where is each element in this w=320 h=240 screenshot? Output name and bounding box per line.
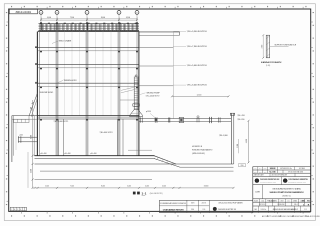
svg-text:SEKKEI: SEKKEI: [270, 168, 276, 170]
svg-text:4,900: 4,900: [246, 139, 248, 143]
svg-text:HOSUIRO PLAN SANSYO: HOSUIRO PLAN SANSYO: [192, 149, 213, 152]
svg-text:TENKEN HORO: TENKEN HORO: [64, 80, 78, 82]
svg-text:B5-1: B5-1: [294, 204, 297, 206]
svg-text:UNIT: UNIT: [280, 201, 283, 203]
svg-text:2017.8.10 SYONINZUMI: 2017.8.10 SYONINZUMI: [272, 175, 288, 177]
svg-text:1,500: 1,500: [31, 107, 33, 111]
svg-text:▽EL+700: ▽EL+700: [237, 114, 244, 117]
svg-text:E: E: [136, 12, 137, 14]
svg-text:▽EL+5,000 SOUTOU: ▽EL+5,000 SOUTOU: [187, 64, 207, 67]
svg-text:B: B: [20, 209, 21, 211]
svg-text:12.8: 12.8: [259, 171, 262, 173]
svg-text:1:100: 1:100: [261, 201, 265, 203]
svg-text:HOSUIRO E: HOSUIRO E: [192, 146, 203, 148]
svg-text:(S=1:100 SOTO): (S=1:100 SOTO): [150, 193, 163, 195]
svg-text:CHUGOKU ELECTRIC KK: CHUGOKU ELECTRIC KK: [218, 209, 236, 211]
svg-text:φ600: φ600: [20, 134, 24, 136]
svg-text:JWN-41-W-001: JWN-41-W-001: [15, 12, 32, 14]
svg-text:DSG: DSG: [191, 209, 194, 211]
svg-text:12.8: 12.8: [254, 171, 257, 173]
svg-text:SHUSUI PUMP ROOM DANMENZU: SHUSUI PUMP ROOM DANMENZU: [270, 191, 304, 194]
svg-text:CHK: CHK: [259, 168, 262, 170]
svg-text:3RD: 3RD: [274, 201, 277, 203]
svg-text:SETSUBI DWG No.: SETSUBI DWG No.: [280, 168, 292, 170]
svg-text:4,500: 4,500: [126, 17, 130, 19]
svg-text:DWG: DWG: [191, 203, 194, 205]
svg-text:7,500: 7,500: [70, 17, 74, 19]
svg-text:(1:10): (1:10): [266, 65, 271, 67]
svg-text:SUPPORT TORITSUKE ICH: SUPPORT TORITSUKE ICH: [275, 45, 297, 47]
svg-text:12.8: 12.8: [264, 171, 267, 173]
svg-text:DSGN CHK: DSGN CHK: [277, 204, 284, 206]
svg-text:DSG: DSG: [264, 168, 267, 170]
svg-text:DWG No.: DWG No.: [261, 209, 267, 211]
svg-text:KANDAI SYOSAIZU: KANDAI SYOSAIZU: [261, 61, 282, 64]
svg-text:▽EL+2,600 SOTO: ▽EL+2,600 SOTO: [54, 120, 69, 123]
svg-text:13,600: 13,600: [204, 186, 209, 188]
svg-text:2,500: 2,500: [45, 186, 49, 188]
svg-text:(JWN-41-W-002): (JWN-41-W-002): [192, 153, 205, 155]
svg-text:A17000779 HONZUMEN NO CHOSAKUK: A17000779 HONZUMEN NO CHOSAKUKEN WA TOSH…: [262, 215, 320, 218]
svg-text:8,000: 8,000: [101, 186, 105, 188]
svg-text:8,000: 8,000: [31, 135, 33, 139]
svg-text:ONODA HATSUDENSYO (KARI): ONODA HATSUDENSYO (KARI): [272, 187, 301, 190]
svg-text:SHUSUI PUMP: SHUSUI PUMP: [147, 93, 161, 95]
svg-text:OSAKAWAN IRIHORI: OSAKAWAN IRIHORI: [163, 208, 184, 211]
svg-text:12,000: 12,000: [197, 94, 202, 96]
svg-text:SNS: SNS: [240, 165, 243, 167]
svg-text:SUIKOMI SUISO: SUIKOMI SUISO: [40, 92, 54, 94]
svg-text:B: B: [56, 12, 57, 14]
svg-text:CHUGOKU ELECTRIC CORP: CHUGOKU ELECTRIC CORP: [260, 182, 276, 184]
svg-text:P: P: [297, 209, 298, 211]
svg-text:8,000: 8,000: [101, 17, 105, 19]
svg-text:TENJO CRANE: TENJO CRANE: [59, 40, 72, 43]
svg-text:ZUMEI: ZUMEI: [255, 192, 260, 194]
svg-text:4,000: 4,000: [145, 186, 149, 188]
svg-text:2017.8.10: 2017.8.10: [259, 204, 265, 206]
svg-text:1:100: 1:100: [269, 201, 275, 203]
svg-text:▽EL+2,600 SOTO: ▽EL+2,600 SOTO: [146, 95, 160, 98]
svg-text:4,500: 4,500: [162, 186, 166, 188]
svg-text:2,000: 2,000: [261, 44, 263, 48]
svg-text:2,300: 2,300: [237, 144, 239, 148]
svg-text:φ1350: φ1350: [146, 111, 151, 113]
svg-text:(SONO 1): (SONO 1): [283, 196, 291, 198]
svg-text:7,500: 7,500: [70, 186, 74, 188]
svg-text:▽EL+3,000 SOUTOU: ▽EL+3,000 SOUTOU: [187, 84, 207, 87]
svg-text:mm: mm: [287, 201, 289, 203]
svg-text:CHUGOKU DENRYOKU KK: CHUGOKU DENRYOKU KK: [260, 179, 280, 181]
svg-text:2017.8: 2017.8: [202, 203, 206, 205]
svg-text:▽EL-200: ▽EL-200: [237, 118, 244, 121]
svg-text:1-1: 1-1: [142, 191, 147, 195]
svg-text:8.10: 8.10: [202, 209, 205, 211]
svg-text:4,400: 4,400: [31, 169, 33, 173]
svg-text:▽EL-1,800: ▽EL-1,800: [219, 134, 228, 137]
svg-text:▽EL+9,500 SOUTOU: ▽EL+9,500 SOUTOU: [187, 30, 207, 33]
svg-text:▽EL+7,300 SOUTOU: ▽EL+7,300 SOUTOU: [187, 45, 207, 48]
svg-text:4,000: 4,000: [47, 17, 51, 19]
svg-text:▽EL+600 SOTO: ▽EL+600 SOTO: [100, 131, 114, 134]
svg-text:1/1: 1/1: [304, 209, 306, 211]
svg-text:5,000: 5,000: [127, 186, 131, 188]
